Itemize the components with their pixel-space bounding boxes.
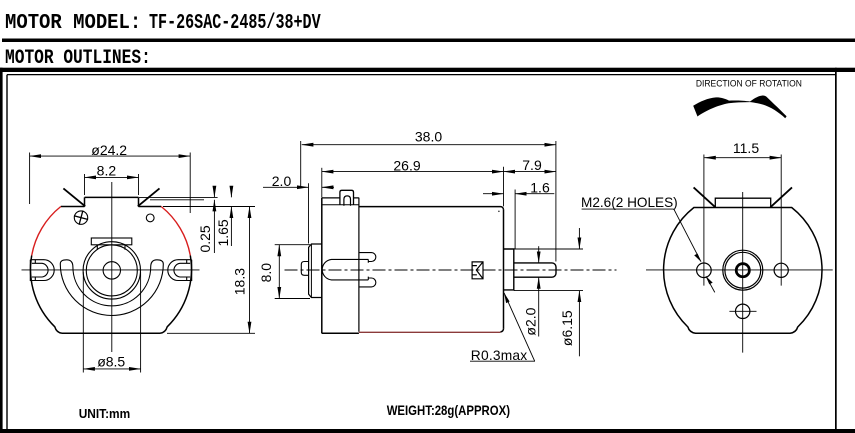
mid: commutator washer box [472,262,483,279]
mid: terminal [301,262,308,276]
left view dimensions [30,153,255,373]
svg-text:WEIGHT:28g(APPROX): WEIGHT:28g(APPROX) [387,402,510,418]
frame: right border [835,68,837,433]
frame: left border [0,68,3,433]
left view: right ear slot [168,260,192,281]
right view: body outline [664,208,822,334]
left view: left ear slot [30,260,54,281]
dim 18.3 [249,207,251,334]
leader R0.3max [504,293,535,361]
left view: shoulders [61,206,161,208]
mid: can bottom red line [359,331,501,333]
svg-text:18.3: 18.3 [232,268,248,295]
dim 1.65 [230,186,232,197]
svg-text:ø24.2: ø24.2 [91,142,127,158]
dim 8.0 [275,244,310,246]
svg-text:2.0: 2.0 [272,173,292,189]
frame: inner top line [7,74,836,76]
svg-text:ø2.0: ø2.0 [523,307,539,335]
svg-text:11.5: 11.5 [733,140,759,156]
left view: screw hole with cross [74,211,87,224]
svg-text:R0.3max: R0.3max [471,348,528,363]
svg-text:1.65: 1.65 [215,219,231,246]
mid: rear face [321,198,323,334]
svg-text:DIRECTION OF ROTATION: DIRECTION OF ROTATION [696,79,802,90]
left view: bean vent [60,260,163,316]
left view: body side arcs [31,256,62,334]
svg-text:1.6: 1.6 [530,179,550,195]
svg-text:7.9: 7.9 [522,157,542,173]
svg-text:8.2: 8.2 [97,162,117,178]
right view: M2.6 hole right [774,263,788,277]
right view: bottom hole [736,304,750,318]
mid: axis center line [285,269,617,271]
dim 26.9 [321,168,323,198]
dim 38.0 [300,141,302,189]
dim o2.0 [538,246,540,263]
svg-text:M2.6(2 HOLES): M2.6(2 HOLES) [581,195,678,210]
mid: endbell top + tab [322,190,359,205]
left view: boss top tab [91,238,132,245]
dim 1.6 [514,190,516,250]
mid: can corner bottom [501,329,504,332]
frame: rule under motor model [2,39,855,43]
mid: can top [359,207,504,210]
dim o24.2 [29,153,31,205]
left view: bearing boss circles [83,242,140,299]
right view: center lines [646,269,833,271]
svg-text:ø8.5: ø8.5 [97,353,125,369]
svg-text:26.9: 26.9 [393,157,420,173]
left view: shaft hole [103,262,120,279]
mid dimensions [263,141,715,361]
mid: front boss [504,249,514,290]
frame: inner left line [6,75,8,430]
mid: brush fork pill [322,259,368,280]
title: MOTOR MODEL [5,11,141,35]
dim 8.2 [84,174,86,195]
svg-text:8.0: 8.0 [258,263,274,283]
dim o6.15 [514,248,583,250]
dim 0.25 [213,186,215,197]
dim 2.0 [308,183,310,243]
mid: fork bottom finger [359,278,376,287]
mid: corner dot [498,211,500,213]
right view: shaft hub ring [736,264,749,277]
mid: can front face [503,210,505,329]
svg-text:0.25: 0.25 [197,225,213,252]
left view: red arc right [161,207,190,256]
left view: red arc left [32,207,61,256]
right view: chamfer marks [694,187,792,207]
svg-text:ø6.15: ø6.15 [559,310,575,346]
title: model number [149,11,321,35]
dim 11.5 [704,157,781,159]
dim o8.5 [82,272,84,373]
svg-text:UNIT:mm: UNIT:mm [79,406,131,421]
left view: bottom flat [62,332,160,334]
left view: small hole [146,214,154,222]
mid: brush cap [309,244,322,298]
mid: seam line [358,198,360,332]
right view: top bump [715,198,770,207]
left view: chamfer marks [63,188,159,206]
dim 7.9 [503,167,505,207]
frame: bottom border [0,429,855,433]
mid: endbell bottom [322,332,359,334]
mid: shaft [514,263,556,277]
left view: center lines [22,269,200,271]
dim 0.25/1.65 extension lines [139,196,218,198]
right view: boss circles [723,250,763,290]
mid: fork top finger [359,253,376,262]
title: MOTOR OUTLINES [5,47,151,70]
svg-text:38.0: 38.0 [415,129,442,145]
rotation arrow swoosh [693,95,786,118]
left view: top flat [85,197,139,206]
leader M2.6 [582,208,674,210]
frame: top border [0,68,855,72]
right view: M2.6 hole left [697,263,712,278]
